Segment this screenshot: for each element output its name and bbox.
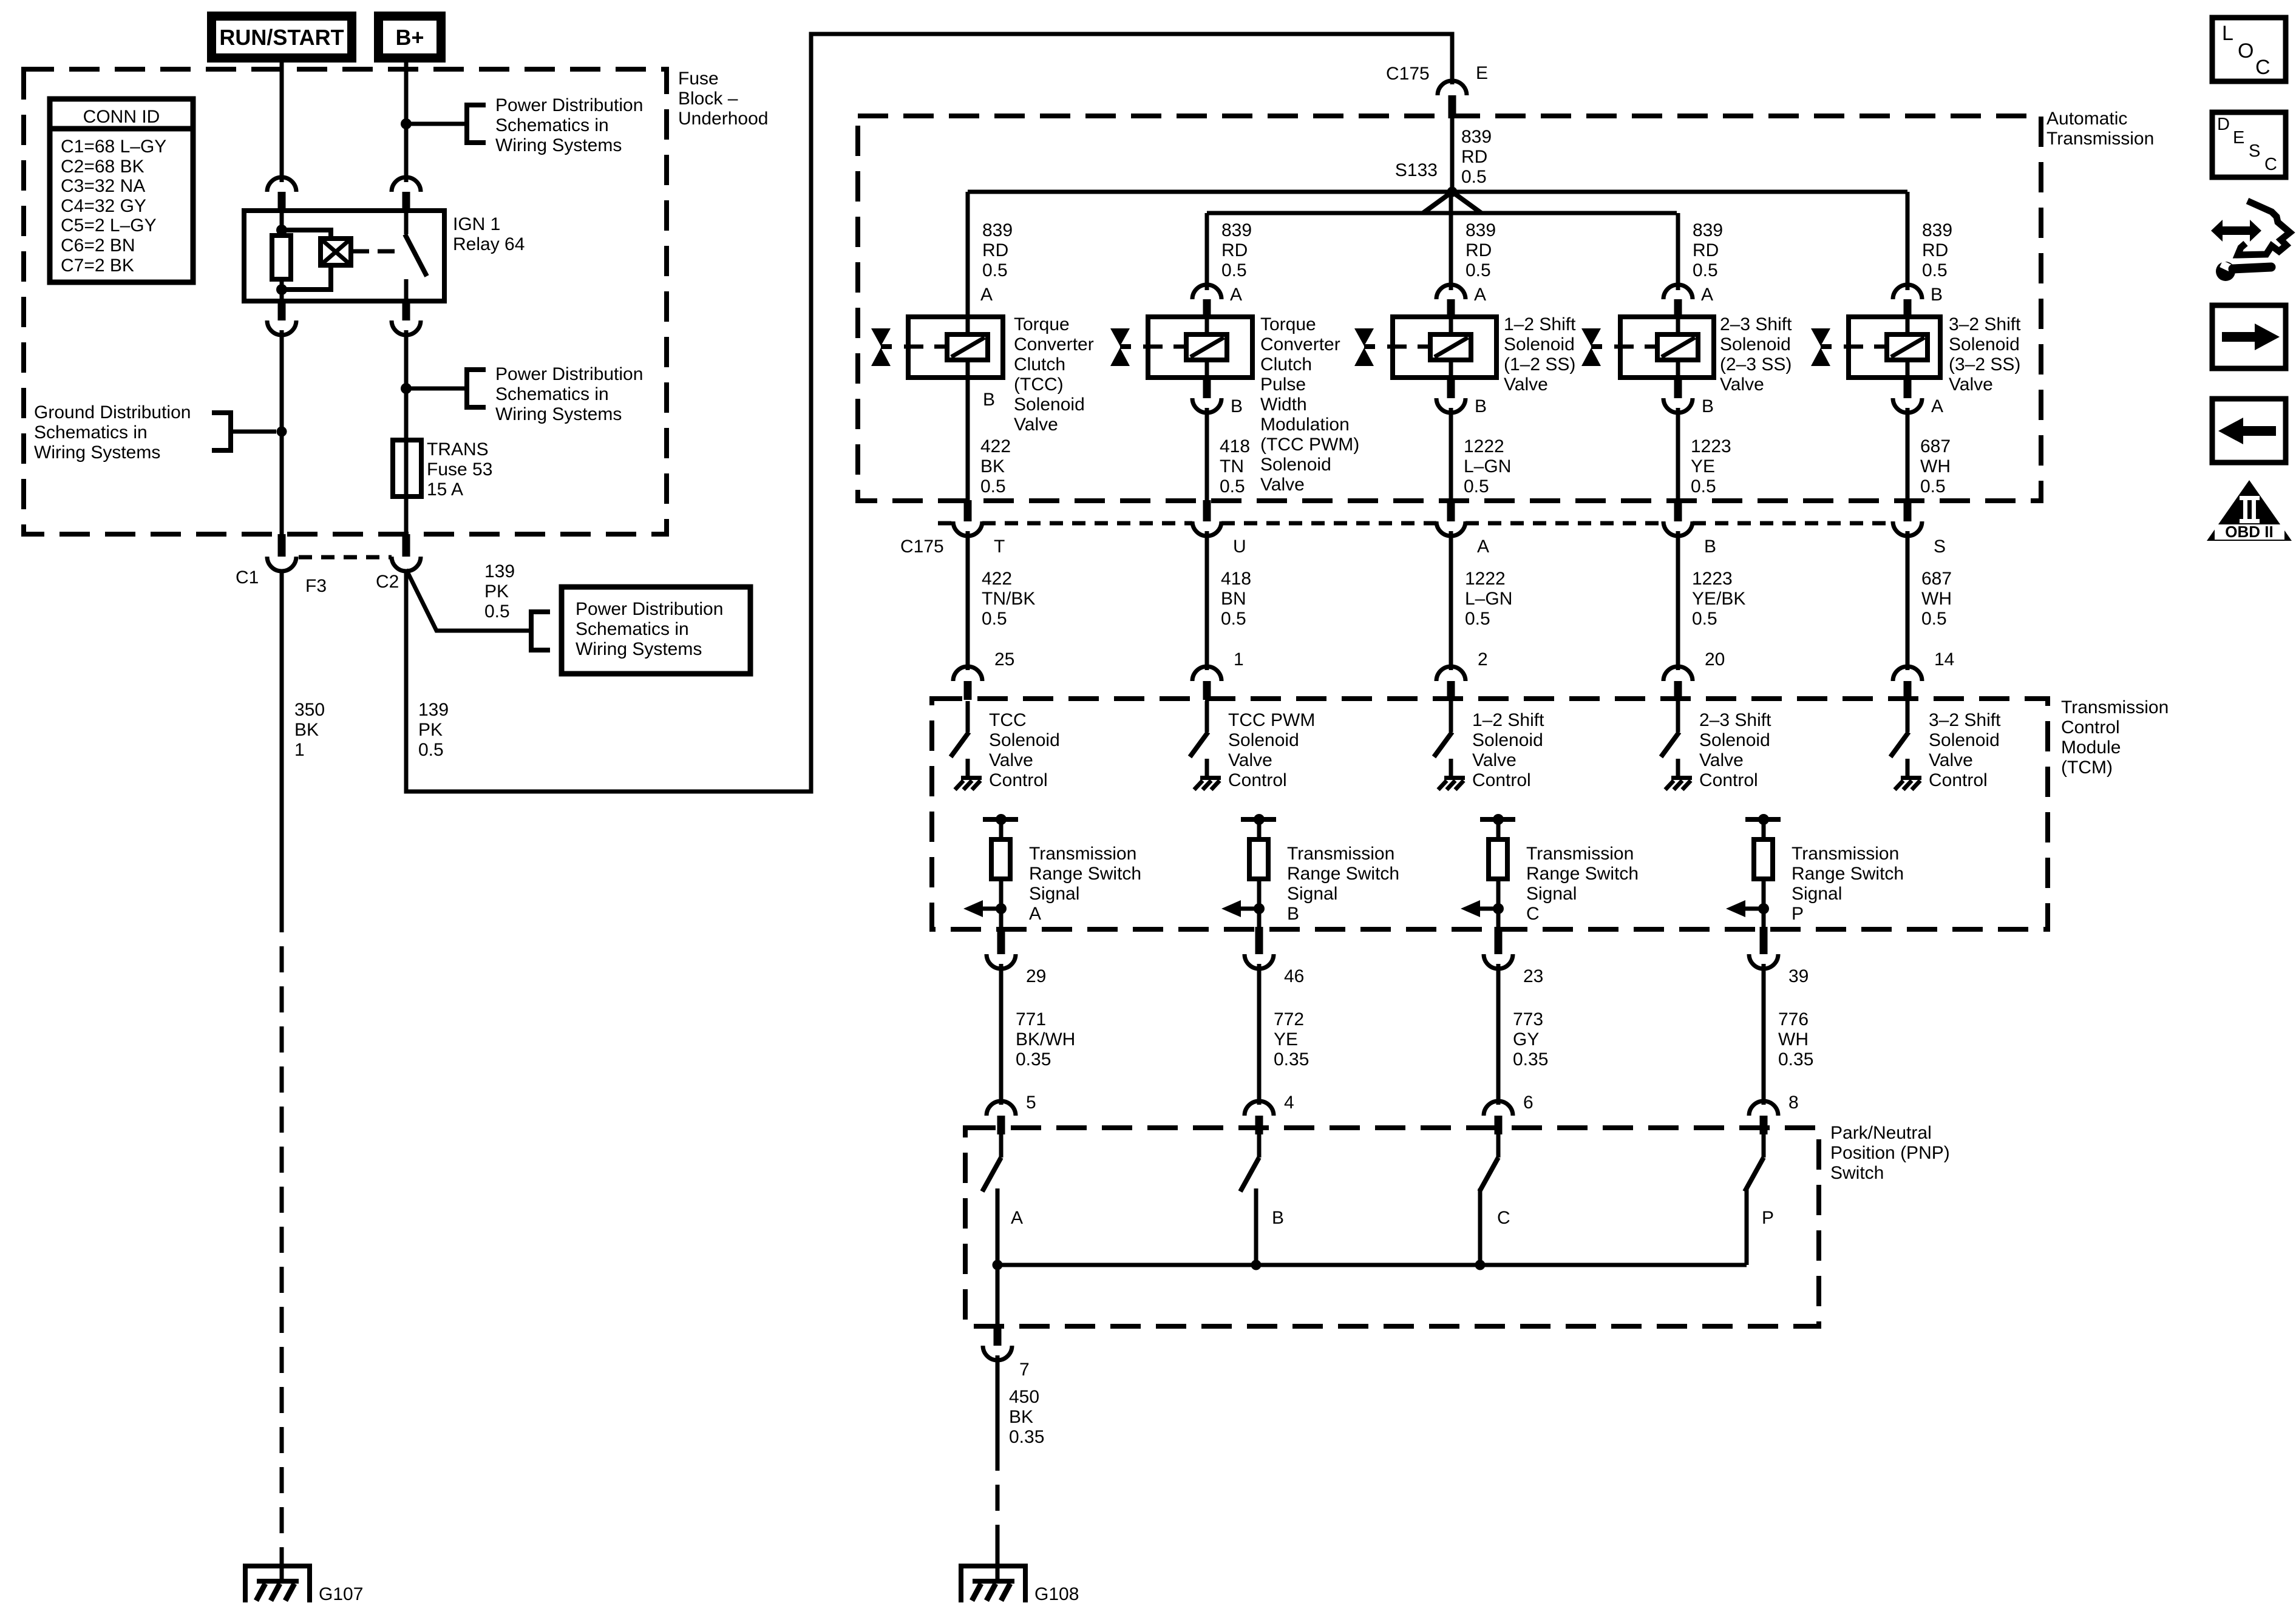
svg-text:1223: 1223 [1691,436,1731,456]
svg-text:139: 139 [484,561,515,581]
svg-text:0.5: 0.5 [1920,476,1946,497]
svg-text:Torque: Torque [1260,314,1316,334]
connector solenoid 2 pin B [1192,378,1221,413]
transmission control module box [932,699,2048,929]
svg-text:A: A [1474,285,1486,305]
svg-text:Wiring Systems: Wiring Systems [576,639,702,659]
wire relay output to fuse [404,330,409,440]
wire label 839 RD 0.5 col 3 [1466,220,1496,280]
wire label 139 PK 0.5 (lower) [418,700,449,760]
solenoid valve 3 box [1393,317,1496,378]
svg-text:4: 4 [1284,1093,1294,1113]
PNP switch contact C [1479,1131,1498,1265]
svg-text:0.5: 0.5 [1921,609,1947,629]
svg-text:839: 839 [1461,127,1492,147]
fuse TRANS Fuse 53 15 A [393,440,421,497]
svg-text:687: 687 [1921,569,1952,589]
svg-text:350: 350 [294,700,325,720]
svg-text:YE/BK: YE/BK [1692,589,1745,609]
svg-text:Clutch: Clutch [1260,354,1312,375]
wire label 839 RD 0.5 col 2 [1221,220,1252,280]
TCM control label TCC PWM [1228,710,1315,790]
ground TCM driver 3 [1438,759,1465,790]
solenoid 4 name [1720,314,1792,395]
svg-text:771: 771 [1016,1009,1046,1029]
connector C175 pin B [1663,500,1693,536]
PNP switch label [1830,1123,1950,1183]
svg-text:Fuse: Fuse [678,69,719,89]
svg-text:RD: RD [982,240,1008,260]
wire RUN/START feed [280,63,284,182]
connector relay pin (RUN/START side) [267,177,296,211]
solenoid 5 coil [1887,317,1927,378]
svg-text:139: 139 [418,700,449,720]
icon back arrow box [2212,399,2286,463]
range switch signal P label [1792,844,1904,924]
svg-text:C1=68 L–GY: C1=68 L–GY [61,137,166,157]
svg-text:Control: Control [1228,770,1287,790]
wire label 350 BK 1 [294,700,325,760]
svg-text:46: 46 [1284,966,1304,986]
connector TCM pin 1 [1192,666,1221,700]
svg-text:3–2 Shift: 3–2 Shift [1949,314,2021,334]
solenoid 5 name [1949,314,2021,395]
svg-text:C4=32 GY: C4=32 GY [61,196,146,216]
svg-text:0.35: 0.35 [1513,1049,1548,1070]
svg-text:L: L [2222,22,2233,45]
svg-text:839: 839 [1221,220,1252,240]
wire label below solenoid 1 [980,436,1011,497]
junction ground distribution tap [277,427,287,437]
icon forward arrow box [2212,305,2286,368]
connector TCM pin 29 [987,927,1016,969]
svg-text:Park/Neutral: Park/Neutral [1830,1123,1932,1143]
TCM driver switch 2–3 Shift [1661,701,1679,757]
pointer power distribution schematics (top) text [495,95,643,155]
svg-text:25: 25 [994,649,1014,670]
pointer power distribution schematics (top) [401,103,486,145]
svg-text:BN: BN [1221,589,1246,609]
wire label 418 BN 0.5 [1221,569,1251,629]
svg-text:Modulation: Modulation [1260,415,1350,435]
junction power distribution tap 2 [401,384,412,394]
wire 839 RD from E [1450,118,1455,189]
svg-text:B: B [1287,904,1299,924]
svg-text:BK: BK [1009,1407,1033,1427]
icon jump/see wrench symbol [2211,201,2290,281]
svg-text:CONN ID: CONN ID [83,107,160,127]
connector TCM pin 25 [953,666,982,700]
svg-text:Power Distribution: Power Distribution [576,599,723,619]
TCM control label 1–2 Shift [1472,710,1544,790]
svg-text:0.5: 0.5 [982,609,1007,629]
wire label 1223 YE/BK 0.5 [1692,569,1745,629]
svg-text:15 A: 15 A [427,480,463,500]
park/neutral position switch box [965,1128,1819,1326]
svg-text:C175: C175 [900,537,944,557]
connector solenoid 3 pin B [1436,378,1466,413]
wire label 1222 L–GN 0.5 [1465,569,1512,629]
svg-text:C3=32 NA: C3=32 NA [61,176,145,196]
svg-text:2–3 Shift: 2–3 Shift [1699,710,1771,730]
svg-text:Schematics in: Schematics in [495,384,609,404]
svg-text:A: A [980,285,993,305]
svg-text:Transmission: Transmission [1029,844,1136,864]
svg-text:C5=2 L–GY: C5=2 L–GY [61,215,157,236]
connector TCM pin 46 [1245,927,1274,969]
svg-text:P: P [1792,904,1804,924]
svg-text:Automatic: Automatic [2046,109,2127,129]
resistor transmission range switch signal P [1745,814,1781,929]
wire S133 diagonal left [1423,192,1452,213]
ground G107 [243,1548,312,1602]
svg-text:B: B [1231,396,1243,416]
signal arrow P [1726,900,1769,917]
svg-text:0.5: 0.5 [1466,260,1491,280]
svg-text:RD: RD [1461,147,1487,167]
svg-text:Wiring Systems: Wiring Systems [495,404,622,424]
svg-text:39: 39 [1788,966,1809,986]
svg-text:1223: 1223 [1692,569,1733,589]
svg-text:23: 23 [1523,966,1543,986]
svg-text:C7=2 BK: C7=2 BK [61,256,134,276]
svg-text:WH: WH [1921,589,1952,609]
wire fuse to C2 [404,497,409,534]
svg-text:(3–2 SS): (3–2 SS) [1949,354,2020,375]
wire 350 BK [280,569,284,906]
connector TCM pin 2 [1436,666,1466,700]
wire 839 RD to solenoid 4 [1676,213,1680,290]
automatic transmission box [858,116,2041,501]
svg-text:C2: C2 [376,572,399,592]
wire 450 BK [996,1355,1000,1445]
svg-text:Transmission: Transmission [1526,844,1634,864]
svg-text:0.35: 0.35 [1016,1049,1051,1070]
svg-text:839: 839 [982,220,1013,240]
svg-text:20: 20 [1705,649,1725,670]
solenoid 2 name [1260,314,1359,495]
solenoid 1 name [1014,314,1094,435]
svg-text:Transmission: Transmission [2046,129,2154,149]
svg-text:RD: RD [1221,240,1248,260]
svg-text:0.5: 0.5 [1220,476,1245,497]
connector relay output (RUN side) [267,301,296,335]
svg-text:Fuse 53: Fuse 53 [427,459,492,480]
svg-text:Switch: Switch [1830,1163,1884,1183]
connector relay pin (B+ side) [392,177,421,211]
svg-text:0.35: 0.35 [1274,1049,1309,1070]
svg-text:0.5: 0.5 [418,740,444,760]
svg-text:6: 6 [1523,1093,1533,1113]
svg-text:Solenoid: Solenoid [989,730,1060,750]
svg-text:0.5: 0.5 [1461,167,1487,187]
solenoid 2 coil [1186,317,1227,378]
svg-text:Valve: Valve [1014,415,1058,435]
svg-text:1: 1 [294,740,305,760]
svg-text:Valve: Valve [1472,750,1517,770]
wire label below solenoid 3 [1464,436,1511,497]
svg-text:Valve: Valve [1929,750,1973,770]
wire label 771 [1016,1009,1075,1070]
ground G108 [959,1548,1028,1602]
svg-text:YE: YE [1274,1029,1298,1049]
svg-text:TCC: TCC [989,710,1027,730]
svg-text:0.5: 0.5 [1922,260,1948,280]
svg-text:772: 772 [1274,1009,1304,1029]
wire label 776 [1778,1009,1813,1070]
svg-text:S: S [2249,141,2260,161]
svg-text:F3: F3 [305,576,327,596]
range switch signal B label [1287,844,1399,924]
wire PNP common bus [997,1263,1747,1267]
wire 839 RD to solenoid 5 [1906,192,1910,290]
svg-text:0.5: 0.5 [1693,260,1718,280]
TCM driver switch 3–2 Shift [1890,701,1909,757]
svg-text:C1: C1 [236,568,259,588]
svg-text:1: 1 [1234,649,1244,670]
connector row dotted line C1-C2 [299,555,392,560]
fuse label [427,439,492,500]
svg-text:GY: GY [1513,1029,1539,1049]
wire 350 BK dashed run [280,906,284,1549]
connector TCM pin 14 [1893,666,1922,700]
svg-text:2: 2 [1478,649,1488,670]
TCM label [2061,697,2169,778]
svg-text:422: 422 [982,569,1012,589]
svg-text:7: 7 [1019,1360,1030,1380]
pointer ground distribution schematics [212,410,276,453]
svg-text:(1–2 SS): (1–2 SS) [1504,354,1575,375]
connector C175 pin U [1192,500,1221,536]
svg-text:0.35: 0.35 [1778,1049,1813,1070]
svg-text:0.5: 0.5 [980,476,1006,497]
svg-text:Solenoid: Solenoid [1014,395,1085,415]
wire 839 RD to solenoid 1 [966,192,970,317]
connector TCM pin 23 [1484,927,1513,969]
svg-text:A: A [1011,1208,1023,1228]
solenoid 1 valve symbol [871,328,947,366]
ground TCM driver 2 [1194,759,1221,790]
connector PNP pin 4 [1245,1101,1274,1134]
svg-text:B: B [983,390,995,410]
PNP switch contact P [1745,1131,1764,1265]
svg-text:Clutch: Clutch [1014,354,1065,375]
svg-text:Control: Control [2061,717,2120,737]
PNP switch contact B [1240,1131,1259,1265]
TCM control label TCC [989,710,1060,790]
ground distribution text [34,402,191,463]
svg-text:Wiring Systems: Wiring Systems [34,442,160,463]
svg-text:0.35: 0.35 [1009,1427,1044,1447]
ground TCM driver 5 [1895,759,1921,790]
wire label 772 [1274,1009,1309,1070]
svg-text:C2=68 BK: C2=68 BK [61,157,144,177]
svg-text:Valve: Valve [1720,375,1764,395]
svg-text:418: 418 [1220,436,1250,456]
signal arrow C [1461,900,1504,917]
svg-text:Solenoid: Solenoid [1699,730,1770,750]
connector C2 [392,534,421,571]
connector PNP pin 5 [987,1101,1016,1134]
wire relay output to C1 [280,330,284,534]
svg-text:RD: RD [1693,240,1719,260]
automatic transmission label [2046,109,2154,149]
svg-text:PK: PK [484,581,509,602]
svg-text:Wiring Systems: Wiring Systems [495,135,622,155]
svg-text:G108: G108 [1034,1584,1079,1604]
svg-text:Solenoid: Solenoid [1720,334,1791,354]
connector TCM pin 20 [1663,666,1693,700]
svg-text:Valve: Valve [1949,375,1993,395]
svg-text:2–3 Shift: 2–3 Shift [1720,314,1792,334]
svg-text:(2–3 SS): (2–3 SS) [1720,354,1792,375]
svg-text:Control: Control [1929,770,1988,790]
junction PNP bus B [1251,1260,1262,1270]
resistor transmission range switch signal A [983,814,1018,929]
solenoid 4 coil [1657,317,1698,378]
wire label below solenoid 2 [1220,436,1250,497]
svg-text:C6=2 BN: C6=2 BN [61,236,135,256]
svg-text:773: 773 [1513,1009,1543,1029]
svg-text:8: 8 [1788,1093,1799,1113]
svg-text:0.5: 0.5 [1221,260,1247,280]
svg-text:Transmission: Transmission [1792,844,1899,864]
svg-text:0.5: 0.5 [1465,609,1490,629]
resistor transmission range switch signal B [1241,814,1276,929]
power distribution schematics box [562,587,750,674]
svg-text:Schematics in: Schematics in [495,115,609,135]
connector solenoid 3 pin A [1436,285,1466,318]
PNP switch contact A [982,1131,1001,1265]
connector PNP pin 6 [1484,1101,1513,1134]
svg-text:C: C [2255,56,2271,79]
power distribution box text [576,599,723,659]
svg-text:S133: S133 [1395,160,1438,180]
wire S133 bus lower [1207,211,1677,215]
junction PNP bus C [1475,1260,1486,1270]
svg-text:687: 687 [1920,436,1951,456]
svg-text:G107: G107 [319,1584,363,1604]
solenoid 2 valve symbol [1110,328,1186,366]
svg-text:0.5: 0.5 [1692,609,1717,629]
svg-text:Solenoid: Solenoid [1949,334,2020,354]
wire PNP common to pin 7 [996,1265,1000,1328]
svg-text:0.5: 0.5 [1691,476,1716,497]
solenoid valve 1 box [908,317,1003,378]
svg-text:A: A [1029,904,1041,924]
svg-text:Solenoid: Solenoid [1504,334,1575,354]
wire 839 RD to solenoid 3 [1449,192,1453,290]
solenoid valve 4 box [1620,317,1714,378]
svg-text:RD: RD [1922,240,1948,260]
wire 418 BN [1205,531,1209,670]
wire solenoid 4 return [1676,408,1680,503]
svg-text:0.5: 0.5 [1464,476,1489,497]
connector C175 pin E [1438,81,1467,118]
wire 839 RD to solenoid 2 [1205,213,1209,290]
svg-text:E: E [1476,63,1488,83]
wire label 839 RD 0.5 col 5 [1922,220,1952,280]
svg-text:1222: 1222 [1464,436,1504,456]
TCM control label 3–2 Shift [1929,710,2001,790]
svg-text:Solenoid: Solenoid [1929,730,2000,750]
wire label 839 RD 0.5 (feed) [1461,127,1492,187]
svg-text:776: 776 [1778,1009,1809,1029]
wire B+ feed [404,63,409,182]
TCM driver switch TCC PWM [1190,701,1208,757]
wire label below solenoid 4 [1691,436,1731,497]
signal arrow A [963,900,1007,917]
svg-text:Valve: Valve [1699,750,1744,770]
svg-text:C175: C175 [1386,64,1430,84]
icon DESC box [2212,112,2286,177]
svg-text:A: A [1701,285,1713,305]
svg-text:3–2 Shift: 3–2 Shift [1929,710,2001,730]
wire 773 GY [1496,964,1501,1105]
svg-text:5: 5 [1026,1093,1036,1113]
junction B+ power distribution tap [401,119,412,129]
connector solenoid 4 pin B [1663,378,1693,413]
relay IGN 1 Relay 64 [244,211,444,301]
svg-text:TN: TN [1220,456,1244,476]
solenoid 3 coil [1430,317,1471,378]
svg-text:A: A [1230,285,1242,305]
wire label 687 WH 0.5 [1921,569,1952,629]
svg-text:0.5: 0.5 [982,260,1008,280]
wire label 422 TN/BK 0.5 [982,569,1035,629]
wire 1223 YE/BK [1676,531,1680,670]
power feed box RUN/START [212,16,352,58]
svg-text:Solenoid: Solenoid [1472,730,1543,750]
svg-text:Range Switch: Range Switch [1792,864,1904,884]
svg-text:A: A [1477,537,1489,557]
svg-text:Width: Width [1260,395,1307,415]
svg-text:29: 29 [1026,966,1046,986]
icon LOC box [2212,18,2286,81]
svg-text:Ground Distribution: Ground Distribution [34,402,191,422]
fuse block label [678,69,768,129]
svg-text:BK: BK [980,456,1005,476]
svg-text:(TCC): (TCC) [1014,375,1064,395]
svg-text:Schematics in: Schematics in [576,619,689,639]
svg-text:TCC PWM: TCC PWM [1228,710,1315,730]
connector solenoid 5 pin B [1893,285,1922,318]
svg-text:S: S [1934,537,1946,557]
svg-text:Transmission: Transmission [1287,844,1394,864]
splice S133 [1447,187,1458,197]
svg-text:0.5: 0.5 [1221,609,1246,629]
svg-text:YE: YE [1691,456,1715,476]
svg-text:1–2 Shift: 1–2 Shift [1504,314,1576,334]
power feed box B+ [379,16,441,58]
svg-text:Valve: Valve [1228,750,1272,770]
svg-text:L–GN: L–GN [1464,456,1511,476]
pointer power distribution schematics (mid) text [495,364,643,424]
junction PNP bus A [993,1260,1003,1270]
solenoid 3 name [1504,314,1576,395]
wire 139 PK branch [406,569,531,631]
connector PNP pin 7 [983,1324,1012,1360]
svg-text:U: U [1233,537,1246,557]
wire label 773 [1513,1009,1548,1070]
wire solenoid 5 return [1906,408,1910,503]
CONN ID table [50,99,193,282]
svg-text:450: 450 [1009,1387,1039,1407]
svg-text:Valve: Valve [1504,375,1548,395]
svg-text:TN/BK: TN/BK [982,589,1035,609]
connector C175 pin T [953,500,982,536]
ground TCM driver 1 [955,759,982,790]
